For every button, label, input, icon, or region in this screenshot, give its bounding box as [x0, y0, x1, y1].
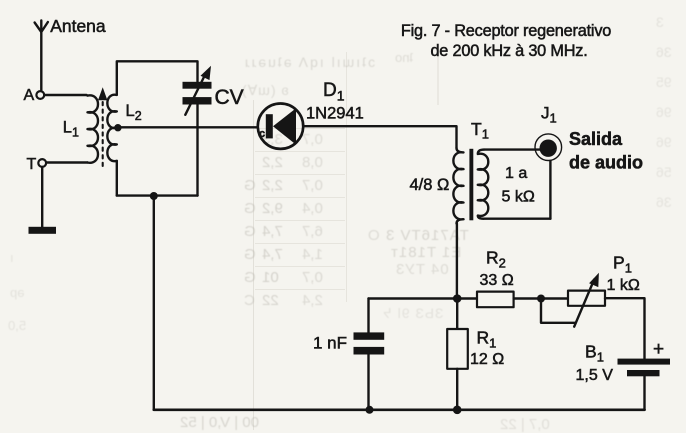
wire T to ground: [41, 167, 43, 227]
wire T1 primary to junction: [456, 224, 458, 295]
svg-text:1 nF: 1 nF: [313, 334, 347, 353]
wire L2 bottom: [116, 161, 118, 196]
wire R2 to P1: [514, 297, 568, 299]
svg-text:c: c: [259, 128, 265, 140]
svg-text:P1: P1: [613, 253, 632, 276]
wire T1 secondary bottom: [484, 217, 551, 219]
tap node on L2: [114, 124, 121, 131]
svg-text:L1: L1: [63, 119, 79, 140]
middle rail left: [369, 297, 478, 299]
svg-text:Fig. 7 - Receptor regenerativo: Fig. 7 - Receptor regenerativo: [401, 22, 611, 40]
battery B1 negative plate: [627, 370, 660, 376]
svg-text:4/8 Ω: 4/8 Ω: [410, 176, 450, 194]
capacitor CV top plate: [183, 82, 212, 89]
resistor R2 body: [477, 292, 514, 308]
wire tank to bottom rail: [153, 196, 155, 410]
wire CV bottom: [196, 105, 198, 196]
svg-text:1,5 V: 1,5 V: [576, 367, 614, 384]
terminal A: [36, 91, 44, 99]
ground: [29, 227, 57, 234]
inductor L2: [107, 95, 116, 161]
svg-text:1 kΩ: 1 kΩ: [607, 277, 640, 294]
svg-text:R1: R1: [477, 328, 497, 351]
junction node 1nF bottom: [366, 406, 374, 414]
diode D1 circle: [258, 104, 303, 149]
svg-text:R2: R2: [486, 248, 506, 271]
terminal T: [38, 159, 46, 167]
diode D1 cathode bar: [266, 114, 273, 138]
svg-text:1 a: 1 a: [505, 165, 527, 182]
junction node R1 bottom: [453, 406, 462, 415]
svg-text:J1: J1: [541, 104, 557, 126]
diode D1 triangle: [273, 108, 296, 144]
wire top rail L2 to CV: [117, 61, 198, 95]
resistor R1 body: [447, 329, 468, 369]
svg-text:12 Ω: 12 Ω: [470, 351, 504, 368]
wire battery to bottom rail: [643, 376, 645, 410]
wire diode to T1: [303, 126, 456, 148]
svg-text:D1: D1: [323, 80, 345, 104]
svg-text:CV: CV: [215, 86, 244, 109]
battery B1 positive plate: [618, 359, 671, 365]
svg-text:T: T: [27, 156, 37, 173]
junction node rail/T1/R1: [453, 294, 462, 303]
wire jack down: [549, 161, 551, 219]
transformer T1 core: [469, 149, 473, 221]
svg-text:5 kΩ: 5 kΩ: [502, 189, 535, 206]
jack J1 inner contact: [540, 140, 557, 157]
wire T1 secondary top to jack: [484, 148, 541, 150]
core dashed line L1/L2: [102, 102, 104, 167]
antenna arms: [35, 22, 48, 32]
wire tap to diode: [120, 126, 258, 128]
transformer T1 primary winding: [453, 148, 463, 224]
junction node tank bottom: [150, 192, 158, 200]
capacitor 1nF wire bottom: [367, 355, 369, 410]
tank bottom rail: [117, 194, 198, 196]
wire L1 to T: [46, 161, 87, 163]
potentiometer P1 body: [568, 291, 605, 306]
svg-text:33 Ω: 33 Ω: [480, 272, 514, 289]
svg-text:Antena: Antena: [50, 16, 106, 36]
wire A to L1: [44, 94, 86, 96]
svg-text:1N2941: 1N2941: [306, 105, 364, 123]
capacitor 1nF top plate: [354, 332, 385, 339]
inductor L1: [88, 95, 99, 162]
antenna mast: [40, 21, 42, 92]
CV arrowhead: [201, 66, 212, 80]
wire R1 to bottom rail: [456, 369, 458, 410]
svg-text:de audio: de audio: [569, 153, 643, 173]
transformer T1 secondary winding: [478, 150, 489, 219]
P1 arrowhead: [589, 273, 599, 287]
capacitor CV bottom plate: [183, 97, 212, 104]
faint bleed-through layer: [0, 0, 686, 1]
wire P1 to battery: [605, 298, 645, 358]
core arrow: [98, 87, 107, 100]
bottom rail: [154, 408, 645, 411]
svg-text:A: A: [24, 87, 35, 104]
svg-text:T1: T1: [471, 119, 489, 142]
svg-text:de 200 kHz à 30 MHz.: de 200 kHz à 30 MHz.: [430, 42, 587, 60]
wire junction to R1: [456, 299, 458, 330]
svg-text:+: +: [653, 339, 664, 360]
wiper wire: [541, 299, 576, 323]
capacitor 1nF wire top: [367, 299, 369, 333]
svg-text:B1: B1: [585, 342, 604, 365]
capacitor 1nF bottom plate: [354, 347, 385, 355]
junction node R2 right: [537, 295, 545, 303]
jack J1 outer ring: [535, 134, 562, 161]
svg-text:Salida: Salida: [569, 129, 623, 149]
P1 arrow shaft: [574, 280, 594, 327]
svg-text:L2: L2: [126, 102, 142, 123]
CV arrow shaft: [185, 75, 205, 115]
